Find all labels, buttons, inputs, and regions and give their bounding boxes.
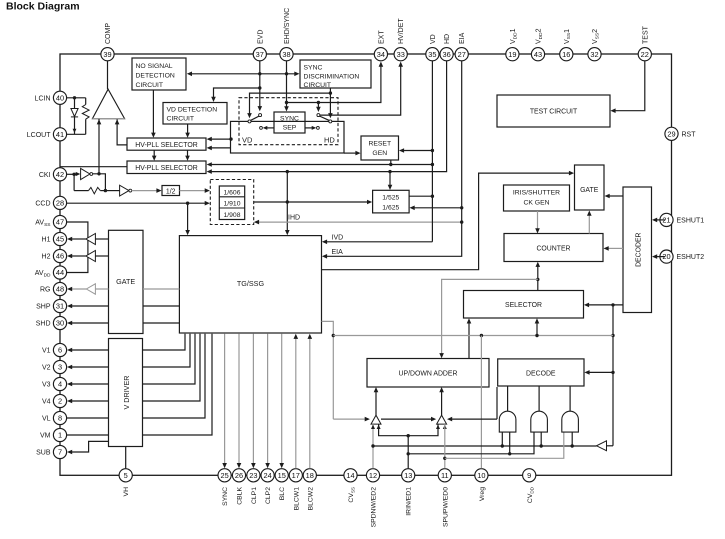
svg-text:27: 27 [458, 50, 466, 59]
node line B to internal vertical [286, 170, 289, 173]
pin 14 (supply) bottom [344, 469, 357, 482]
svg-text:SYNC: SYNC [304, 65, 323, 72]
divide-by-2 block [162, 186, 180, 196]
svg-text:TEST: TEST [642, 25, 649, 44]
wire no-signal det to hv-pll sel 1 [152, 90, 154, 134]
wire vd/hd box to reset gen [344, 152, 357, 154]
pin 41 (LCOUT) left [53, 128, 66, 141]
wire hv-pll sel2 left to chip edge [60, 166, 127, 168]
buffer RG driver (gray) [95, 288, 108, 290]
reset gen block [361, 136, 399, 160]
node selector-counter / gray branch [536, 278, 539, 281]
wire gray distribution line [333, 335, 613, 337]
svg-text:26: 26 [235, 471, 243, 480]
svg-text:CLP2: CLP2 [265, 487, 272, 504]
svg-text:COUNTER: COUNTER [536, 245, 570, 252]
svg-text:22: 22 [641, 50, 649, 59]
wire V1 net [70, 349, 108, 351]
switch SW2 lever [319, 116, 329, 120]
sync sep block [274, 112, 305, 133]
pin 17 (BLCW1) bottom [289, 469, 302, 482]
node gray distribution line [611, 334, 614, 337]
hv-pll selector 1 block [127, 138, 206, 150]
wire hv-pll sel1 to sel2 (left) [153, 150, 155, 157]
svg-text:SYNC: SYNC [280, 116, 299, 123]
wire pin 11 SPUPW vertical (gray) [444, 424, 446, 468]
wire decoder to shutter gate [608, 195, 623, 197]
pin 4 (V3) left [53, 377, 66, 390]
svg-text:1/2: 1/2 [166, 188, 176, 195]
wire HD contact to HVDET pin 33 [320, 66, 401, 116]
wire H1 to pin 45 [70, 238, 86, 240]
wire HD switch contact branch [317, 103, 319, 109]
pin 44 (supply) left [53, 266, 66, 279]
wire resistor branch down [73, 174, 75, 190]
TG/SSG block [179, 236, 321, 333]
svg-text:1: 1 [58, 431, 62, 440]
switch SW1 contact [259, 114, 262, 117]
pin 18 (BLCW2) bottom [303, 469, 316, 482]
pin 47 (supply) left [53, 215, 66, 228]
wire line B: pin 36 HD to hv-pll sel2 [210, 61, 446, 172]
svg-text:31: 31 [56, 302, 64, 311]
svg-text:V4: V4 [42, 399, 51, 406]
wire divider-select output to 1/525 box [254, 201, 369, 203]
svg-text:1/525: 1/525 [382, 195, 399, 202]
svg-text:BLCW2: BLCW2 [307, 487, 314, 511]
svg-text:RESET: RESET [368, 141, 391, 148]
svg-text:SYNC: SYNC [222, 487, 229, 506]
decode block [498, 359, 584, 386]
svg-text:41: 41 [56, 130, 64, 139]
node gray dist line start [332, 334, 335, 337]
svg-text:7: 7 [58, 448, 62, 457]
wire buffer lower inputs [379, 424, 438, 436]
svg-text:32: 32 [590, 50, 598, 59]
svg-text:H1: H1 [42, 237, 51, 244]
svg-text:COMP: COMP [105, 23, 112, 44]
wire VD to reset gen right [402, 150, 432, 152]
node gate3 input b [571, 444, 574, 447]
gate block (shutter) [575, 165, 605, 210]
node line B to 1/525 feed [388, 170, 391, 173]
switch SW1 lever [251, 116, 260, 120]
wire CCD branch down to TG/SSG top [187, 203, 189, 231]
svg-text:43: 43 [534, 50, 542, 59]
svg-text:HD: HD [324, 136, 335, 145]
node EVD / vd-det branch [258, 86, 261, 89]
wire CBLK output drop [238, 334, 240, 465]
svg-text:IHD: IHD [288, 215, 300, 222]
svg-text:RST: RST [682, 131, 697, 138]
wire comp output to pin 39 [107, 61, 109, 89]
pin 37 (EVD) top [253, 48, 266, 61]
node LCIN junction [73, 96, 76, 99]
pin 21 (ESHUT1) right [660, 213, 673, 226]
wire BLCW1 input rise [295, 337, 297, 468]
wire EVD branch to VD detection circuit [214, 88, 260, 98]
svg-text:VH: VH [123, 487, 130, 497]
svg-text:BLCW1: BLCW1 [293, 487, 300, 511]
node EVD / detect line [258, 72, 261, 75]
pin 38 (EHD/SYNC) top [280, 48, 293, 61]
svg-text:VD DETECTION: VD DETECTION [167, 107, 218, 114]
chip boundary rectangle [60, 54, 672, 475]
wire VL net [67, 417, 109, 419]
test circuit block [497, 95, 610, 127]
wire adder to selector [468, 322, 470, 359]
wire VH pin 5 from v driver [125, 447, 127, 469]
sync discrimination circuit block [300, 60, 371, 88]
svg-text:1/908: 1/908 [223, 212, 240, 219]
svg-text:42: 42 [56, 170, 64, 179]
pin 45 (H1) left [53, 232, 66, 245]
svg-text:V1: V1 [42, 348, 51, 355]
v driver block [109, 339, 143, 447]
svg-text:17: 17 [292, 471, 300, 480]
svg-text:ESHUT1: ESHUT1 [677, 217, 705, 224]
pin 33 (HV/DET) top [394, 48, 407, 61]
svg-text:CK GEN: CK GEN [523, 200, 549, 207]
svg-text:GATE: GATE [116, 277, 135, 286]
svg-text:28: 28 [56, 199, 64, 208]
buffer U2 (CKI input) [81, 168, 90, 179]
node VD / line A [431, 163, 434, 166]
svg-text:6: 6 [58, 346, 62, 355]
node decoder/selector branch [611, 303, 614, 306]
node pin12 / bottom bus [371, 444, 374, 447]
node vreg tap [480, 334, 483, 337]
wire right feed into B2 [450, 418, 497, 420]
pin 36 (HD) top [440, 48, 453, 61]
node CCD branch to TG/SSG [186, 202, 189, 205]
wire to buffer U3 [105, 190, 119, 192]
svg-text:DECODER: DECODER [636, 232, 643, 266]
wire ESHUT2 to decoder [655, 256, 665, 258]
node pin13 / gate2 line [407, 452, 410, 455]
wire line B branch into 1/525 box top [389, 172, 391, 187]
pin 16 (power) top [560, 48, 573, 61]
wire U3 to 1/2 divider [132, 190, 158, 192]
wire pin11 to gate3 input a (gray) [445, 432, 564, 458]
wire RG to pin 48 [70, 288, 86, 290]
svg-text:Block Diagram: Block Diagram [6, 1, 80, 13]
switch SW1 (VD select) pivot [248, 120, 251, 123]
node on vd/hd box edge [229, 137, 232, 140]
wire sync sep VD output [266, 127, 274, 129]
node pin11 / gate3 line [443, 457, 446, 460]
node reset-gen bottom on line A [389, 163, 392, 166]
svg-text:9: 9 [527, 471, 531, 480]
pin 6 (V1) left [53, 343, 66, 356]
node VD / 1/525 output [431, 195, 434, 198]
and gate G1 [499, 411, 516, 432]
svg-text:HD: HD [444, 34, 451, 44]
wire V3 net [70, 383, 108, 385]
svg-text:48: 48 [56, 285, 64, 294]
wire BLC output drop [281, 334, 283, 465]
svg-text:1/606: 1/606 [223, 189, 240, 196]
selector block [464, 291, 584, 319]
wire buffer U2 out [93, 174, 106, 191]
wire CLP1 output drop [252, 334, 254, 465]
wire G2 right leg [540, 432, 542, 446]
svg-text:GEN: GEN [372, 150, 387, 157]
pin 9 (supply) bottom [523, 469, 536, 482]
and gate G2 [531, 411, 548, 432]
photodiode D1 branch wire [74, 98, 76, 135]
wire into inverter input [607, 445, 614, 447]
node VD to reset gen [431, 149, 434, 152]
svg-text:4: 4 [58, 380, 62, 389]
wire TG/SSG gray out down (to input cells) [322, 321, 334, 419]
wire BLCW2 input rise [309, 337, 311, 468]
svg-text:1/910: 1/910 [223, 200, 240, 207]
pin 27 (EIA) top [455, 48, 468, 61]
svg-text:19: 19 [508, 50, 516, 59]
svg-text:ESHUT2: ESHUT2 [677, 254, 705, 261]
pin 23 (CLP1) bottom [247, 469, 260, 482]
svg-text:LCOUT: LCOUT [27, 132, 51, 139]
wire decode to G2 [538, 386, 540, 411]
pin 34 (EXT) top [374, 48, 387, 61]
svg-text:33: 33 [397, 50, 405, 59]
svg-text:SHP: SHP [36, 304, 51, 311]
wire comp input- from hv-pll selector 1 [117, 119, 127, 145]
node gate2 input b [540, 444, 543, 447]
photodiode D1 [71, 109, 78, 117]
pin 31 (SHP) left [53, 299, 66, 312]
wire into decode right [588, 371, 614, 373]
wire pin13 to gate2 input a [408, 432, 534, 454]
svg-text:TEST CIRCUIT: TEST CIRCUIT [530, 109, 578, 116]
wire G3 right leg [571, 432, 573, 446]
pin 8 (VL) left [53, 411, 66, 424]
vd hd selector solid box [231, 121, 345, 153]
wire SHP [143, 305, 179, 307]
svg-text:HV-PLL SELECTOR: HV-PLL SELECTOR [135, 142, 197, 149]
pin 46 (H2) left [53, 249, 66, 262]
counter block [504, 234, 603, 262]
wire decode to G1 [507, 386, 509, 411]
svg-text:Vreg: Vreg [479, 487, 486, 501]
resistor R1 (LCIN-LCOUT) [85, 98, 87, 105]
pin 25 (SYNC) bottom [218, 469, 231, 482]
wire 1/525 output [409, 195, 432, 197]
svg-text:VD: VD [242, 136, 253, 145]
wire hv-pll sel1 to sel2 (right) [187, 150, 189, 157]
wire pin 13 IRIN vertical [407, 436, 409, 469]
wire comp input+ from CKI node [98, 119, 100, 174]
svg-text:NO SIGNAL: NO SIGNAL [136, 63, 173, 70]
svg-text:18: 18 [306, 471, 314, 480]
pin 12 (SPDNW/ED2) bottom [366, 469, 379, 482]
pin 7 (SUB) left [53, 445, 66, 458]
sync separator dashed box [239, 98, 338, 145]
svg-text:30: 30 [56, 319, 64, 328]
wire CCD from pin 28 to divider-select [67, 202, 206, 204]
wire sync sep HD output [305, 127, 313, 129]
svg-text:SEP: SEP [283, 125, 297, 132]
inverter U4 [597, 441, 607, 451]
wire Vreg pin 10 vertical (gray) [480, 336, 482, 469]
svg-text:15: 15 [278, 471, 286, 480]
no signal detection circuit block [132, 58, 186, 90]
wire EIA pin 27 vertical [325, 61, 461, 256]
svg-text:VM: VM [40, 433, 51, 440]
decoder block [623, 187, 652, 313]
svg-text:10: 10 [477, 471, 485, 480]
svg-text:3: 3 [58, 363, 62, 372]
svg-text:SPDNW/ED2: SPDNW/ED2 [371, 487, 378, 528]
svg-text:EXT: EXT [378, 30, 385, 44]
up/down adder block [367, 359, 489, 388]
wire RG gray from TG/SSG to gate [143, 288, 179, 290]
wire B2 output to adder [441, 391, 443, 416]
svg-text:BLC: BLC [279, 487, 286, 500]
svg-text:34: 34 [377, 50, 385, 59]
pin 24 (CLP2) bottom [261, 469, 274, 482]
wire gray branch to up/down adder [442, 279, 538, 354]
svg-text:CLP1: CLP1 [251, 487, 258, 504]
pin 26 (CBLK) bottom [232, 469, 245, 482]
svg-text:SELECTOR: SELECTOR [505, 302, 542, 309]
wire SUB to pin 7 [70, 441, 108, 452]
buffer H1 driver [95, 238, 108, 240]
svg-text:VL: VL [42, 416, 51, 423]
node EIA to 1/525 [460, 206, 463, 209]
svg-text:LCIN: LCIN [35, 95, 51, 102]
svg-text:CIRCUIT: CIRCUIT [167, 116, 195, 123]
svg-text:EHD/SYNC: EHD/SYNC [284, 8, 291, 44]
svg-text:5: 5 [124, 471, 128, 480]
svg-text:44: 44 [56, 268, 64, 277]
svg-text:2: 2 [58, 397, 62, 406]
svg-text:VD: VD [430, 34, 437, 44]
wire CLP2 output drop [267, 334, 269, 465]
switch SW2 contact [317, 114, 320, 117]
svg-text:H2: H2 [42, 254, 51, 261]
pin 29 (RST) right [665, 127, 678, 140]
svg-text:13: 13 [404, 471, 412, 480]
svg-text:14: 14 [346, 471, 354, 480]
node selector feed tap [535, 334, 538, 337]
wire dist to selector bottom [536, 322, 538, 336]
wire branch down to decode and inverter [612, 305, 614, 446]
divider stack 1/606 1/910 1/908 block [219, 186, 244, 220]
svg-text:V DRIVER: V DRIVER [122, 376, 131, 410]
pin 11 (SPUPW/ED0) bottom [438, 469, 451, 482]
svg-text:IRIS/SHUTTER: IRIS/SHUTTER [513, 190, 560, 197]
wire TG/SSG out to shutter gate [322, 173, 571, 270]
wire SHD [143, 322, 179, 324]
svg-text:V2: V2 [42, 365, 51, 372]
wire SYNC output drop [224, 334, 226, 465]
svg-text:CKI: CKI [39, 172, 51, 179]
wire between buffers [381, 418, 433, 420]
wire line A: pin 35 VD to hv-pll sel2 [210, 164, 432, 166]
node decode branch [611, 371, 614, 374]
wire TEST pin 22 to test circuit [614, 61, 645, 111]
wire vd/hd box to hv-pll selector 1 (lower) [210, 147, 230, 149]
wire LCOUT bottom bracket [67, 133, 86, 135]
svg-text:HV/DET: HV/DET [398, 18, 405, 44]
svg-text:EIA: EIA [459, 32, 466, 44]
svg-text:GATE: GATE [580, 187, 599, 194]
wire counter to shutter gate (gray) [588, 215, 590, 234]
pin 20 (ESHUT2) right [660, 250, 673, 263]
svg-text:EIA: EIA [332, 249, 344, 256]
node CKI junction [72, 173, 75, 176]
node divider output / EHD-HD vertical [286, 200, 289, 203]
svg-text:45: 45 [56, 235, 64, 244]
svg-text:SPUPW/ED0: SPUPW/ED0 [442, 487, 449, 527]
divider select dashed box [210, 180, 253, 225]
wire H2 to pin 46 [70, 255, 86, 257]
pin 22 (TEST) top [638, 48, 651, 61]
node R2/U2 junction [104, 189, 107, 192]
pin 35 (VD) top [426, 48, 439, 61]
svg-text:RG: RG [40, 287, 51, 294]
wire gray into input buffer 1 [333, 418, 366, 420]
svg-text:CIRCUIT: CIRCUIT [304, 82, 332, 89]
svg-text:25: 25 [220, 471, 228, 480]
svg-text:HV-PLL SELECTOR: HV-PLL SELECTOR [135, 165, 197, 172]
vd detection circuit block [163, 103, 227, 125]
wire EIA to 1/525 right [413, 207, 462, 209]
and gate G3 [562, 411, 579, 432]
svg-text:IVD: IVD [332, 235, 344, 242]
pin 15 (BLC) bottom [275, 469, 288, 482]
node EXT line / HD contact branch [317, 101, 320, 104]
wire sync discrimination output down to HD switch [329, 88, 331, 115]
wire V2 net [70, 366, 108, 368]
svg-text:CBLK: CBLK [237, 487, 244, 505]
pin 43 (power) top [531, 48, 544, 61]
wire decoder to counter (gray) [607, 247, 623, 249]
wire EHD to EXT pin 34 [287, 66, 381, 103]
buffer H2 driver [95, 255, 108, 257]
svg-text:11: 11 [441, 471, 449, 480]
pin 28 (CCD) left [53, 196, 66, 209]
wire IHD feedback (gray) from EIA vertical to divider-select [258, 221, 462, 223]
svg-text:DECODE: DECODE [526, 370, 556, 377]
svg-text:DISCRIMINATION: DISCRIMINATION [304, 74, 360, 81]
svg-text:38: 38 [282, 50, 290, 59]
svg-text:SHD: SHD [36, 321, 51, 328]
buffer U3 [120, 185, 129, 196]
svg-text:12: 12 [369, 471, 377, 480]
pin 42 (CKI) left [53, 168, 66, 181]
wire decoder to selector [587, 304, 623, 306]
wire between detection circuits (both arrows) [191, 73, 296, 75]
node EHD / ext line [285, 101, 288, 104]
svg-text:23: 23 [249, 471, 257, 480]
divider 1/525 1/625 block [373, 190, 410, 213]
wire IVD into TG/SSG [325, 241, 432, 243]
node EHD / detect line [285, 72, 288, 75]
wire VM net [67, 434, 109, 436]
svg-text:36: 36 [442, 50, 450, 59]
svg-text:37: 37 [256, 50, 264, 59]
pin 30 (SHD) left [53, 316, 66, 329]
node comp input tap [97, 172, 100, 175]
svg-text:CIRCUIT: CIRCUIT [136, 82, 164, 89]
wire V4 net [70, 400, 108, 402]
switch SW2 (HD select) pivot [329, 120, 332, 123]
node pin13 tap [407, 434, 410, 437]
wire vd/hd box to hv-pll selector 1 (upper) [210, 138, 230, 140]
